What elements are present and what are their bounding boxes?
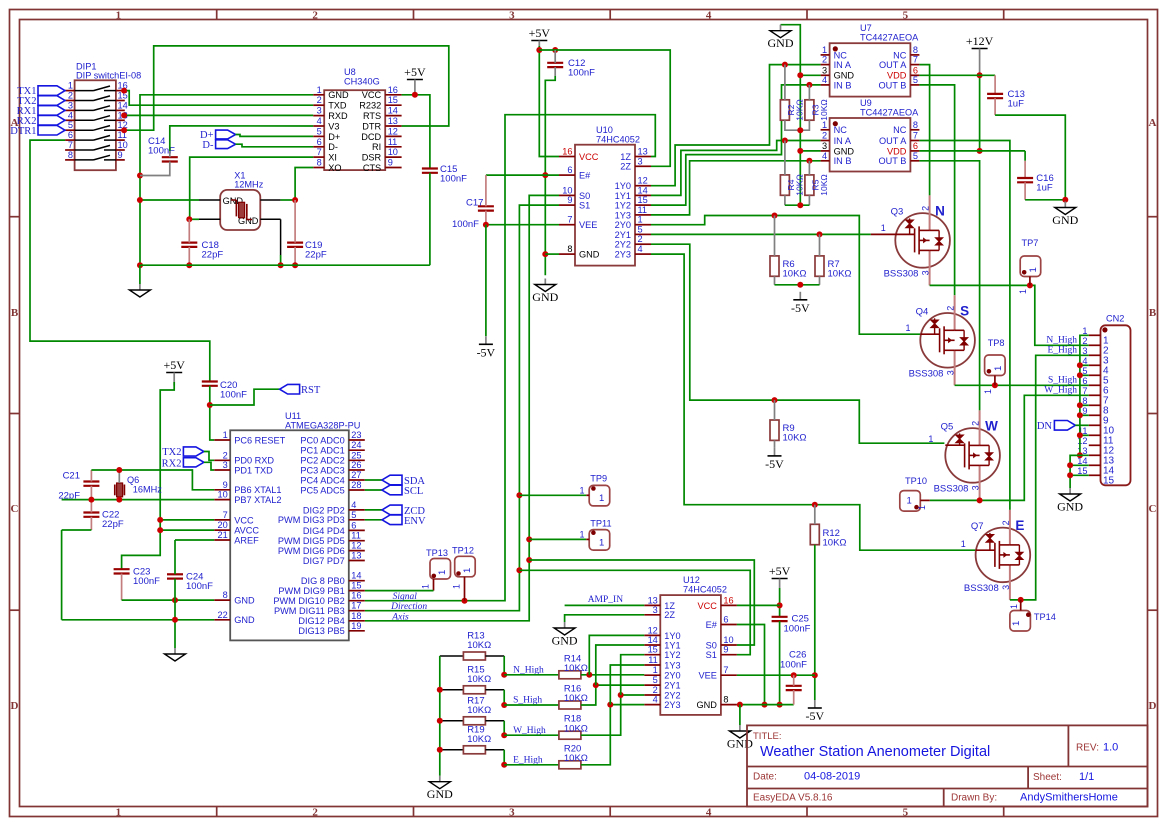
svg-text:OUT B: OUT B [878, 156, 906, 166]
svg-text:3: 3 [509, 806, 515, 818]
svg-text:NC: NC [834, 50, 848, 60]
junction [772, 397, 778, 403]
svg-text:5: 5 [1082, 366, 1087, 376]
resistor R20 [559, 761, 581, 769]
svg-text:Signal: Signal [393, 592, 418, 602]
svg-text:GND: GND [768, 36, 794, 50]
svg-text:04-08-2019: 04-08-2019 [804, 771, 860, 783]
svg-text:2: 2 [921, 206, 931, 211]
svg-text:GND: GND [727, 737, 753, 751]
ground above U7 [780, 25, 782, 31]
wire R7 bottom [819, 276, 821, 285]
svg-text:C: C [11, 503, 19, 515]
wire XTAL1 node [91, 470, 214, 490]
svg-text:NC: NC [834, 125, 848, 135]
svg-text:7: 7 [913, 55, 918, 65]
svg-text:D-: D- [202, 140, 214, 151]
net flag TX2 [183, 447, 204, 456]
svg-text:A: A [1149, 117, 1157, 129]
svg-text:Date:: Date: [753, 772, 777, 783]
wire U9 GND [800, 150, 820, 152]
wire R15 right lead [485, 689, 504, 691]
svg-text:9: 9 [388, 158, 393, 168]
crystal X1 12MHz [220, 170, 264, 230]
IC U11 ATMEGA328P-PU [214, 411, 365, 640]
capacitor C20 [202, 380, 218, 382]
wire U12 2Z to ground [565, 615, 645, 622]
svg-text:2Y3: 2Y3 [615, 250, 631, 260]
capacitor C14 [162, 156, 178, 158]
wire crystal case to rail [280, 255, 282, 265]
svg-text:3: 3 [317, 106, 322, 116]
svg-text:2Z: 2Z [664, 610, 675, 620]
wire R15 elbow [503, 690, 505, 705]
svg-text:1: 1 [961, 539, 966, 549]
wire R18 to U12 2Y [581, 695, 644, 735]
svg-text:2: 2 [317, 95, 322, 105]
svg-text:2Y1: 2Y1 [664, 681, 680, 691]
wire R4 top lead [784, 141, 786, 175]
svg-text:1Y0: 1Y0 [615, 181, 631, 191]
svg-text:8: 8 [68, 150, 73, 160]
wire R12 top lead [814, 505, 816, 525]
svg-text:14: 14 [638, 185, 648, 195]
net flag SCL [382, 485, 402, 495]
svg-text:VDD: VDD [887, 146, 907, 156]
net flag RX2 [183, 458, 204, 467]
svg-text:12: 12 [351, 541, 361, 551]
svg-text:PWM DIG6 PD6: PWM DIG6 PD6 [278, 546, 345, 556]
svg-text:PB6 XTAL1: PB6 XTAL1 [234, 485, 281, 495]
junction [536, 47, 542, 53]
svg-text:E_High: E_High [1047, 346, 1077, 356]
svg-text:8: 8 [223, 590, 228, 600]
svg-text:S0: S0 [579, 191, 590, 201]
svg-text:2: 2 [638, 234, 643, 244]
wire C20 bottom to U11 reset [210, 386, 214, 440]
svg-text:27: 27 [351, 470, 361, 480]
svg-text:10KΩ: 10KΩ [564, 693, 588, 704]
svg-text:1: 1 [462, 568, 473, 573]
svg-text:10KΩ: 10KΩ [783, 269, 807, 280]
wire C16 to GND [1025, 199, 1065, 201]
svg-text:VCC: VCC [362, 90, 382, 100]
svg-text:E#: E# [706, 620, 718, 630]
svg-text:1: 1 [1018, 289, 1028, 294]
svg-text:DIG4 PD4: DIG4 PD4 [303, 526, 345, 536]
wire S_High row [504, 704, 559, 706]
net flag D- [216, 140, 236, 149]
svg-text:W_High: W_High [1044, 386, 1077, 396]
svg-text:2: 2 [1001, 520, 1011, 525]
junction [207, 402, 213, 408]
resistor R17 [463, 717, 485, 725]
svg-text:1Y2: 1Y2 [664, 650, 680, 660]
svg-text:AMP_IN: AMP_IN [588, 595, 624, 605]
wire Axis to U12 S0 [529, 560, 754, 645]
svg-text:100nF: 100nF [784, 624, 811, 635]
svg-text:1: 1 [452, 584, 462, 589]
wire N_High to U12 1Y0 [589, 635, 644, 674]
svg-text:3: 3 [1001, 585, 1011, 590]
wire R20 to U12 2Y [581, 705, 644, 765]
wire CN2 pin13 [1070, 454, 1089, 456]
wire C17 top lead [485, 175, 487, 206]
svg-text:1: 1 [599, 538, 604, 549]
svg-text:10KΩ: 10KΩ [819, 99, 829, 120]
junction [121, 112, 127, 118]
svg-text:4: 4 [706, 9, 712, 21]
svg-text:2: 2 [822, 55, 827, 65]
wire D+ to U8 [236, 135, 314, 137]
svg-text:6: 6 [913, 65, 918, 75]
svg-text:D: D [1149, 700, 1157, 712]
junction [116, 467, 122, 473]
resistor R19 [463, 746, 485, 754]
svg-text:PWM DIG10 PB2: PWM DIG10 PB2 [273, 596, 344, 606]
capacitor C16 [1017, 177, 1033, 179]
resistor R3 [805, 100, 814, 120]
junction [618, 692, 624, 698]
wire CN2 pin15 [1070, 474, 1089, 476]
svg-text:1: 1 [907, 496, 912, 507]
junction [186, 262, 192, 268]
svg-text:9: 9 [118, 150, 123, 160]
svg-text:DIG7 PD7: DIG7 PD7 [303, 556, 345, 566]
svg-text:10: 10 [562, 185, 572, 195]
wire R19 elbow [503, 750, 505, 765]
svg-text:1.0: 1.0 [1103, 742, 1118, 754]
svg-text:D: D [11, 700, 19, 712]
svg-text:S_High: S_High [1048, 376, 1077, 386]
test point TP8 [985, 338, 1006, 385]
svg-text:C: C [1149, 503, 1157, 515]
net flag ENV [382, 515, 402, 525]
wire W_High to U12 1Y [621, 655, 645, 695]
wire U12 VEE row [737, 674, 815, 676]
svg-text:100nF: 100nF [186, 581, 213, 592]
svg-text:1: 1 [223, 430, 228, 440]
svg-text:1: 1 [1011, 621, 1022, 626]
svg-text:10KΩ: 10KΩ [564, 723, 588, 734]
junction [121, 127, 127, 133]
svg-text:2Z: 2Z [620, 162, 631, 172]
svg-text:R232: R232 [359, 101, 381, 111]
svg-text:IN A: IN A [834, 60, 852, 70]
svg-text:1: 1 [421, 584, 431, 589]
svg-text:DIG 8 PB0: DIG 8 PB0 [301, 576, 345, 586]
svg-text:1: 1 [116, 806, 122, 818]
svg-text:8: 8 [913, 120, 918, 130]
wire U11 to SDA [365, 479, 382, 481]
wire R4/R5 bottom rail [785, 204, 810, 206]
test point TP13 [426, 548, 451, 591]
wire U8 XO to crystal [295, 168, 313, 201]
svg-text:11: 11 [388, 137, 398, 147]
test point TP11 [586, 519, 611, 551]
svg-text:DN: DN [1037, 421, 1053, 432]
junction [137, 197, 143, 203]
capacitor C19 [287, 242, 303, 244]
wire U10 2Y3 to Q7 gate [651, 254, 975, 550]
svg-text:OUT B: OUT B [878, 80, 906, 90]
wire U7 VDD row [919, 74, 995, 76]
svg-text:+5V: +5V [769, 564, 791, 578]
wire E_High to U12 1Y [610, 665, 644, 705]
connector CN2 [1077, 314, 1130, 487]
wire C12 top lead [554, 50, 556, 63]
junction [88, 497, 94, 503]
junction [782, 62, 788, 68]
svg-text:PC2 ADC2: PC2 ADC2 [300, 456, 344, 466]
svg-text:2: 2 [68, 91, 73, 101]
svg-text:13: 13 [638, 147, 648, 157]
svg-text:1Y1: 1Y1 [615, 191, 631, 201]
wire CN2 ground bus [1070, 335, 1089, 488]
svg-text:10KΩ: 10KΩ [795, 174, 805, 195]
svg-text:5: 5 [68, 120, 73, 130]
svg-text:12: 12 [388, 126, 398, 136]
svg-text:11: 11 [648, 655, 658, 665]
wire U10 2Y2 to Q5 gate [651, 244, 944, 443]
svg-text:DSR: DSR [362, 153, 382, 163]
svg-text:11: 11 [638, 205, 648, 215]
junction [137, 173, 143, 179]
svg-text:6: 6 [723, 615, 728, 625]
transistor Q5 BSS308 [928, 410, 999, 500]
svg-text:1: 1 [822, 45, 827, 55]
svg-text:8: 8 [723, 695, 728, 705]
wire C12 bottom to E#/GND [545, 76, 555, 275]
wire C14 top lead [169, 151, 171, 157]
junction [1067, 472, 1073, 478]
svg-text:E#: E# [579, 171, 591, 181]
wire C21-C22 link [90, 486, 92, 513]
junction [812, 502, 818, 508]
svg-text:S: S [960, 303, 969, 318]
junction [797, 282, 803, 288]
svg-text:8: 8 [913, 45, 918, 55]
svg-text:VCC: VCC [579, 152, 599, 162]
net flag RST [280, 384, 300, 394]
svg-text:VDD: VDD [887, 71, 907, 81]
wire Q3 source N_High [930, 285, 1089, 345]
ground below U12 right [739, 725, 741, 731]
svg-text:TC4427AEOA: TC4427AEOA [860, 32, 919, 42]
svg-text:5: 5 [638, 224, 643, 234]
wire VCC row [160, 519, 214, 521]
svg-text:1: 1 [906, 323, 911, 333]
wire U9 OUT B to Q5 drain [919, 161, 979, 411]
svg-text:1uF: 1uF [1036, 183, 1053, 194]
svg-text:PD0 RXD: PD0 RXD [234, 456, 274, 466]
junction [542, 251, 548, 257]
junction [501, 762, 507, 768]
wire R15 left lead [440, 689, 464, 691]
wire C18 top lead [188, 219, 190, 242]
svg-text:100nF: 100nF [452, 219, 479, 230]
junction [516, 567, 522, 573]
wire C16 top [1024, 151, 1026, 161]
junction [1077, 452, 1083, 458]
junction [501, 732, 507, 738]
net flag ZCD [382, 505, 402, 515]
svg-text:1: 1 [983, 389, 993, 394]
svg-text:1: 1 [993, 366, 1004, 371]
wire U7 OUT B to Q4 drain [919, 85, 954, 295]
svg-text:D-: D- [328, 142, 338, 152]
svg-text:12: 12 [648, 625, 658, 635]
svg-text:DIG12 PB4: DIG12 PB4 [298, 616, 344, 626]
svg-text:PB7 XTAL2: PB7 XTAL2 [234, 495, 281, 505]
svg-text:15: 15 [1103, 475, 1115, 486]
junction [116, 497, 122, 503]
svg-text:16MHz: 16MHz [133, 485, 163, 495]
svg-text:5: 5 [913, 151, 918, 161]
svg-text:1: 1 [1082, 326, 1087, 336]
svg-text:5: 5 [903, 806, 909, 818]
svg-text:IN A: IN A [834, 136, 852, 146]
wire E# row [486, 174, 559, 176]
net flag TX2 [38, 96, 65, 106]
svg-text:9: 9 [1082, 406, 1087, 416]
net flag TX1 [38, 86, 65, 96]
wire TX2 to U11 [204, 452, 214, 461]
svg-text:BSS308: BSS308 [964, 583, 999, 594]
net flag D+ [216, 130, 236, 139]
wire C15 bottom to rail [429, 173, 431, 265]
svg-text:DIG13 PB5: DIG13 PB5 [298, 626, 344, 636]
svg-text:1: 1 [1028, 267, 1039, 272]
svg-text:10KΩ: 10KΩ [564, 663, 588, 674]
svg-text:RX2: RX2 [162, 459, 182, 470]
svg-text:2Y0: 2Y0 [615, 220, 631, 230]
svg-text:16: 16 [388, 85, 398, 95]
wire GND8 row [122, 599, 215, 601]
test point TP9 [586, 474, 610, 506]
wire U10 2Y1 to Q3 gate [651, 233, 871, 235]
transistor Q3 BSS308 [871, 195, 950, 285]
svg-text:10KΩ: 10KΩ [467, 705, 491, 716]
svg-text:1: 1 [1009, 604, 1019, 609]
capacitor C23 [114, 568, 130, 570]
wire U10 1Y2 to U7 IN B [651, 85, 821, 205]
svg-text:AVCC: AVCC [234, 526, 259, 536]
svg-text:1: 1 [317, 85, 322, 95]
svg-text:ENV: ENV [404, 516, 426, 527]
junction [977, 497, 983, 503]
capacitor C13 [987, 93, 1003, 95]
svg-text:4: 4 [653, 695, 658, 705]
wire DIP16 to U8 TXD [124, 91, 313, 106]
svg-text:Q3: Q3 [891, 206, 904, 217]
wire Q5 source W_High [930, 395, 1089, 500]
svg-text:-5V: -5V [791, 301, 810, 315]
wire R17 elbow [503, 721, 505, 735]
junction [1077, 372, 1083, 378]
svg-text:5: 5 [913, 75, 918, 85]
svg-text:NC: NC [893, 50, 907, 60]
svg-text:PC3 ADC3: PC3 ADC3 [300, 465, 344, 475]
junction [516, 492, 522, 498]
wire C21 top lead [90, 470, 92, 482]
svg-text:100nF: 100nF [220, 390, 247, 401]
crystal Q6 16MHz [115, 475, 163, 497]
wire R5 top lead [808, 161, 810, 175]
test point TP7 [1020, 238, 1040, 285]
capacitor C22 [83, 511, 99, 513]
resistor R7 [815, 256, 824, 276]
svg-text:4: 4 [317, 116, 322, 126]
resistor R18 [559, 731, 581, 739]
wire CN2 pin14 [1070, 464, 1089, 466]
junction [437, 718, 443, 724]
wire C19 bottom lead [294, 247, 296, 265]
svg-text:GND: GND [579, 250, 600, 260]
svg-text:5: 5 [903, 9, 909, 21]
svg-text:2: 2 [971, 421, 981, 426]
svg-text:2Y1: 2Y1 [615, 230, 631, 240]
svg-text:26: 26 [351, 460, 361, 470]
junction [1027, 282, 1033, 288]
svg-text:9: 9 [723, 645, 728, 655]
svg-text:D+: D+ [328, 132, 340, 142]
svg-text:XI: XI [328, 153, 337, 163]
resistor R12 [810, 524, 819, 544]
wire R14 to U12 2Y0 [581, 674, 644, 676]
wire U9 VDD row [919, 150, 1025, 152]
svg-text:1Y2: 1Y2 [615, 201, 631, 211]
junction [762, 702, 768, 708]
wire XTAL2 node [62, 499, 215, 501]
capacitor C21 [83, 480, 99, 482]
svg-text:14: 14 [118, 100, 128, 110]
svg-text:3: 3 [68, 100, 73, 110]
wire R17 right lead [485, 720, 504, 722]
wire R7 top lead [819, 234, 821, 256]
junction [797, 202, 803, 208]
junction [292, 197, 298, 203]
svg-text:S1: S1 [579, 201, 590, 211]
wire AREF row [175, 539, 214, 541]
junction [526, 536, 532, 542]
svg-text:20: 20 [217, 520, 227, 530]
wire crystal bottom node [189, 218, 199, 220]
net flag RX1 [38, 106, 65, 116]
wire U11 to ENV [365, 519, 382, 521]
resistor R14 [559, 671, 581, 679]
-5V below R9 [774, 448, 776, 456]
svg-text:1: 1 [599, 493, 604, 504]
wire C13 to GND [995, 115, 1065, 200]
svg-text:22pF: 22pF [202, 250, 224, 261]
wire N_High row [504, 674, 559, 676]
svg-text:14: 14 [388, 106, 398, 116]
wire C16 bottom lead [1024, 182, 1026, 200]
test point TP12 [452, 546, 475, 601]
svg-text:10KΩ: 10KΩ [828, 269, 852, 280]
junction [977, 148, 983, 154]
wire DIP13 to U8 RXD [124, 114, 313, 116]
svg-text:GND: GND [834, 146, 855, 156]
svg-text:10KΩ: 10KΩ [823, 538, 847, 549]
wire DIP12 to U8 DTR [124, 46, 449, 130]
svg-text:7: 7 [567, 215, 572, 225]
svg-text:GND: GND [234, 615, 255, 625]
svg-text:1Z: 1Z [620, 152, 631, 162]
svg-text:2Y2: 2Y2 [664, 690, 680, 700]
junction [437, 747, 443, 753]
